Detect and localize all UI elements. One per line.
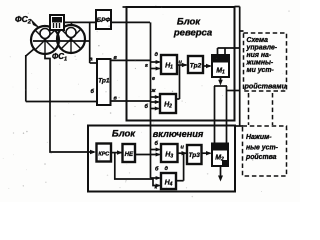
svg-text:НЕ: НЕ <box>125 152 134 158</box>
svg-text:ния на-: ния на- <box>247 52 272 59</box>
svg-text:ные уст-: ные уст- <box>246 145 279 152</box>
svg-text:Н3: Н3 <box>165 152 173 160</box>
svg-text:б: б <box>155 166 159 173</box>
svg-text:Блок: Блок <box>112 129 136 140</box>
svg-text:а: а <box>90 57 93 63</box>
svg-text:ройствами: ройствами <box>244 82 287 91</box>
svg-text:Н1: Н1 <box>165 63 173 71</box>
svg-text:управле-: управле- <box>246 45 278 52</box>
svg-text:включения: включения <box>153 129 204 139</box>
svg-text:Схема: Схема <box>247 37 269 44</box>
svg-text:е: е <box>152 76 155 82</box>
svg-text:Тр1: Тр1 <box>98 78 110 85</box>
svg-text:ройства: ройства <box>245 153 277 161</box>
svg-text:ФС2: ФС2 <box>15 14 32 26</box>
svg-text:д: д <box>155 52 159 58</box>
svg-text:М2: М2 <box>215 155 224 163</box>
svg-text:ми уст-: ми уст- <box>247 67 275 74</box>
svg-text:Тр3: Тр3 <box>188 152 200 159</box>
svg-text:д: д <box>165 166 169 172</box>
svg-text:б: б <box>91 88 95 95</box>
svg-text:Н2: Н2 <box>164 102 172 110</box>
svg-text:БРФ: БРФ <box>97 17 111 24</box>
svg-text:Нажим-: Нажим- <box>246 134 272 141</box>
svg-text:М1: М1 <box>216 68 225 76</box>
svg-text:Блок: Блок <box>177 17 201 28</box>
svg-text:ж: ж <box>151 88 157 94</box>
svg-text:ФС1: ФС1 <box>52 52 67 63</box>
svg-text:реверса: реверса <box>173 28 212 39</box>
svg-text:Н4: Н4 <box>165 180 173 188</box>
svg-text:и: и <box>181 145 185 151</box>
svg-text:Тр2: Тр2 <box>190 63 202 70</box>
svg-text:б: б <box>145 103 149 110</box>
svg-text:б: б <box>155 140 159 147</box>
svg-text:КРС: КРС <box>98 152 109 158</box>
svg-text:г: г <box>145 63 148 69</box>
